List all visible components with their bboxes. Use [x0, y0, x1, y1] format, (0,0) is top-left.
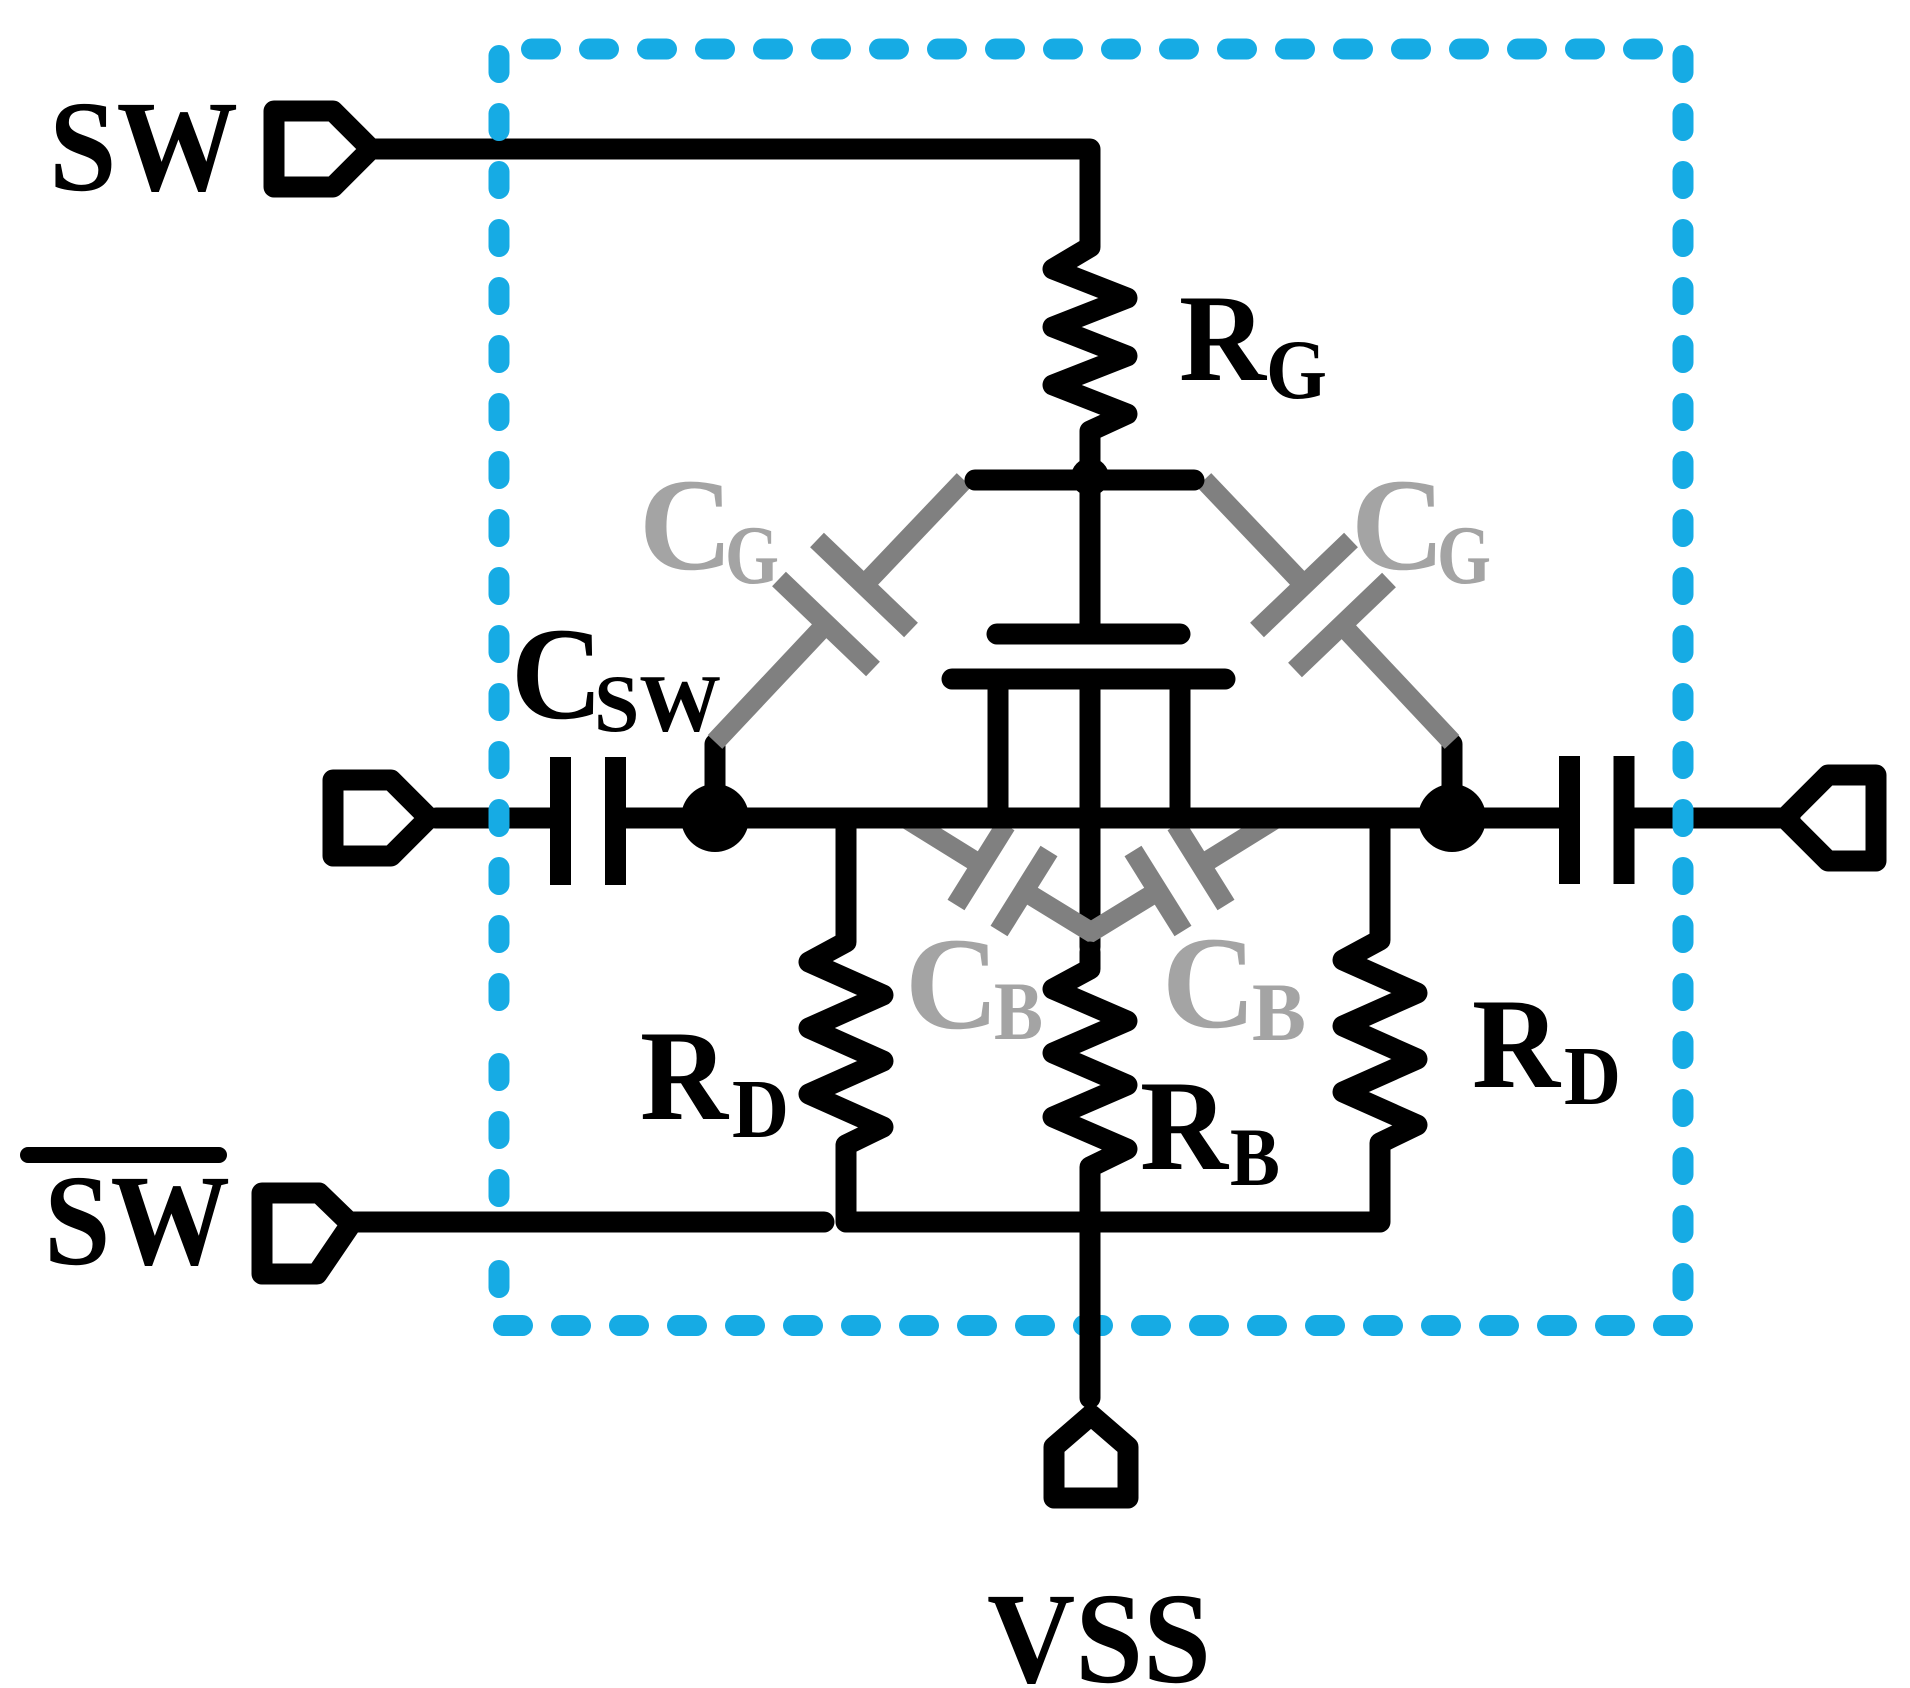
- svg-text:G: G: [1437, 509, 1491, 602]
- svg-text:B: B: [994, 965, 1043, 1057]
- svg-text:VSS: VSS: [987, 1567, 1211, 1688]
- svg-text:R: R: [1472, 972, 1562, 1115]
- svg-text:C: C: [1162, 909, 1256, 1056]
- svg-text:C: C: [639, 451, 733, 598]
- svg-text:G: G: [1266, 323, 1327, 417]
- svg-text:R: R: [640, 1004, 730, 1147]
- svg-text:B: B: [1230, 1111, 1280, 1203]
- svg-text:SW: SW: [49, 75, 238, 219]
- svg-text:B: B: [1252, 966, 1306, 1058]
- svg-text:R: R: [1140, 1054, 1230, 1197]
- svg-text:SW: SW: [44, 1149, 230, 1293]
- svg-text:C: C: [511, 600, 603, 747]
- svg-text:D: D: [1564, 1030, 1621, 1123]
- svg-text:C: C: [1351, 451, 1445, 598]
- svg-text:SW: SW: [594, 658, 721, 749]
- svg-text:R: R: [1179, 270, 1267, 407]
- svg-text:G: G: [725, 509, 779, 602]
- svg-text:D: D: [732, 1063, 789, 1156]
- svg-text:C: C: [905, 910, 999, 1057]
